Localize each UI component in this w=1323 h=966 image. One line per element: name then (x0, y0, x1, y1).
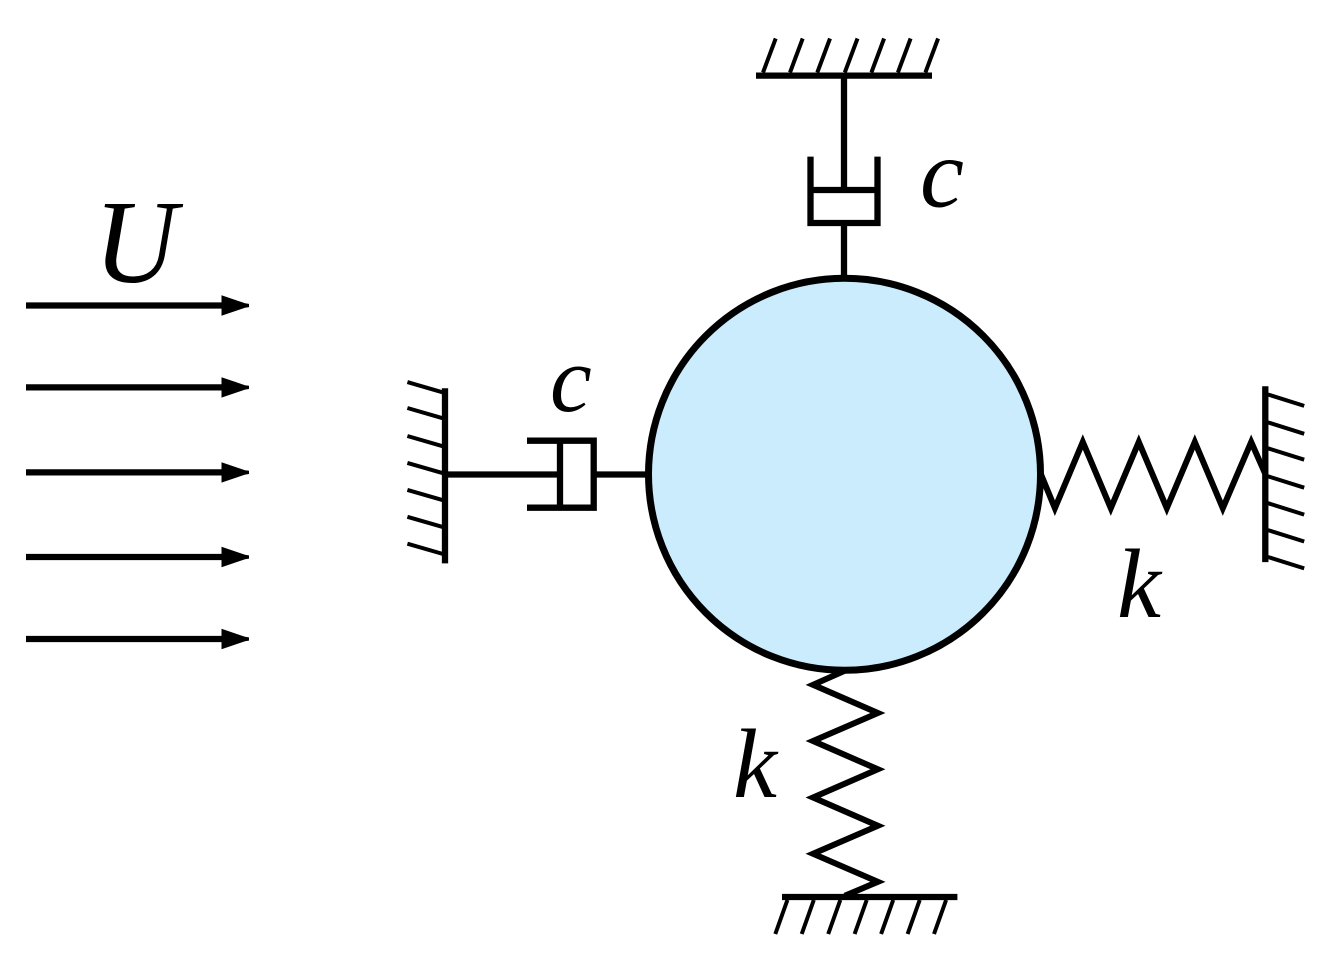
right spring k (1041, 442, 1266, 508)
ground line (782, 894, 957, 900)
top damper rod upper (841, 75, 847, 190)
top wall hatching (763, 39, 938, 73)
left damper piston plate (557, 441, 563, 508)
flow arrow 4 (26, 554, 228, 560)
left damper rod to cylinder mass (594, 471, 650, 477)
top damper rod lower (841, 223, 847, 278)
svg-text:k: k (1117, 530, 1163, 639)
left damper cylinder cup (527, 441, 594, 508)
flow arrow 5 (26, 636, 228, 642)
right fixed wall (1262, 386, 1268, 562)
svg-text:U: U (94, 176, 183, 308)
left wall hatching (407, 382, 443, 554)
bottom spring k (813, 671, 878, 896)
ground hatching (775, 900, 946, 934)
svg-text:c: c (920, 120, 964, 229)
top damper piston plate (811, 187, 878, 193)
left fixed wall (442, 388, 448, 563)
top fixed wall (756, 72, 932, 78)
cylinder mass (circle) (649, 278, 1041, 670)
flow arrow 1 (26, 302, 228, 308)
svg-text:k: k (733, 710, 779, 819)
right wall hatching (1268, 395, 1304, 569)
flow arrow 2 (26, 384, 228, 390)
flow arrow 3 (26, 469, 228, 475)
left damper rod from wall (445, 471, 560, 477)
top damper cylinder cup (811, 157, 878, 223)
svg-text:c: c (550, 328, 592, 432)
